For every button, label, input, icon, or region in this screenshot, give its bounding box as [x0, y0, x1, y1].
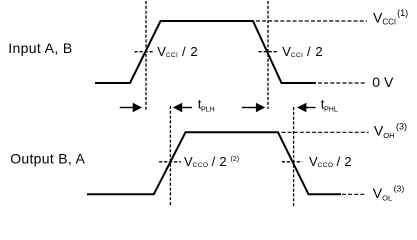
- tPHL left-boundary arrow (points right at input falling reference): [242, 103, 265, 112]
- input waveform Input A,B: [95, 21, 316, 83]
- horizontal dashed line: 0 V level: [318, 82, 365, 84]
- vertical dashed line: output rising-edge 50% reference: [169, 106, 171, 206]
- vertical dashed line: input rising-edge 50% reference: [145, 1, 147, 110]
- vertical dashed line: output falling-edge 50% reference: [293, 107, 295, 207]
- svg-text:0 V: 0 V: [372, 74, 394, 90]
- 50% crossing tick: input rising edge: [135, 51, 155, 53]
- tPHL right-boundary arrow (points left at output falling reference): [297, 103, 316, 112]
- tPLH right-boundary arrow (points left at output rising reference): [173, 103, 192, 112]
- output waveform Output B,A: [87, 132, 341, 194]
- vertical dashed line: input falling-edge 50% reference: [267, 1, 269, 109]
- 50% crossing tick: output rising edge: [159, 161, 181, 163]
- horizontal dashed line: VCCI level: [256, 20, 367, 22]
- svg-text:VCCI / 2: VCCI / 2: [157, 44, 198, 59]
- 50% crossing tick: input falling edge: [259, 51, 277, 53]
- 50% crossing tick: output falling edge: [282, 161, 303, 163]
- tPLH left-boundary arrow (points right at input rising reference): [120, 103, 142, 112]
- horizontal dashed line: VOH level: [282, 131, 369, 133]
- svg-text:Output B, A: Output B, A: [10, 151, 85, 167]
- svg-text:Input A, B: Input A, B: [8, 40, 72, 56]
- svg-text:VCCI / 2: VCCI / 2: [282, 44, 323, 59]
- horizontal dashed line: VOL level: [342, 193, 365, 195]
